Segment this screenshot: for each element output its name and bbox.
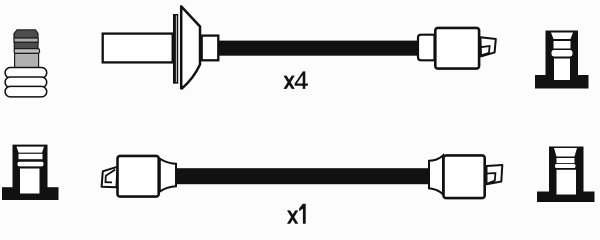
tab inner step (bottom left) xyxy=(106,170,116,183)
distributor tower icon (bottom right) xyxy=(537,147,595,203)
cable (bottom) xyxy=(175,168,430,184)
boot cap top face xyxy=(14,30,38,38)
letter x of x1 xyxy=(287,210,298,223)
terminal tab (top right) xyxy=(480,37,495,56)
spark plug boot icon (top-left, gray) xyxy=(14,30,40,68)
terminal tab (bottom right) xyxy=(487,165,503,184)
boot cap side band xyxy=(14,38,38,42)
collar (right end) xyxy=(418,35,435,61)
cable (top) xyxy=(219,41,419,56)
connector body (bottom right) xyxy=(444,155,485,198)
letter x of x4 xyxy=(284,76,295,89)
boot gray block xyxy=(15,53,39,67)
distributor tower icon (left middle) xyxy=(2,145,59,200)
boot light collar xyxy=(14,49,39,54)
digit 1 of x1 xyxy=(299,204,306,224)
boot bellows (three white ribs) xyxy=(5,68,47,97)
connector body (top right) xyxy=(435,28,479,69)
flange disc xyxy=(173,14,178,84)
digit 4 of x4 xyxy=(295,71,308,89)
boot dark section xyxy=(14,42,38,48)
distributor tower icon (top right) xyxy=(535,31,589,89)
label x4 xyxy=(284,71,308,89)
collar (bottom left) xyxy=(160,159,176,192)
tab inner step (bottom right) xyxy=(487,173,495,184)
connector body (bottom left) xyxy=(118,156,159,197)
neck rectangle xyxy=(202,36,219,61)
collar (bottom right) xyxy=(429,156,443,195)
label x1 xyxy=(287,204,306,224)
tab inner step xyxy=(481,46,490,55)
terminal tab (bottom left) xyxy=(102,167,118,188)
terminal rectangle (left end) xyxy=(103,34,173,63)
bell boot xyxy=(181,6,200,88)
